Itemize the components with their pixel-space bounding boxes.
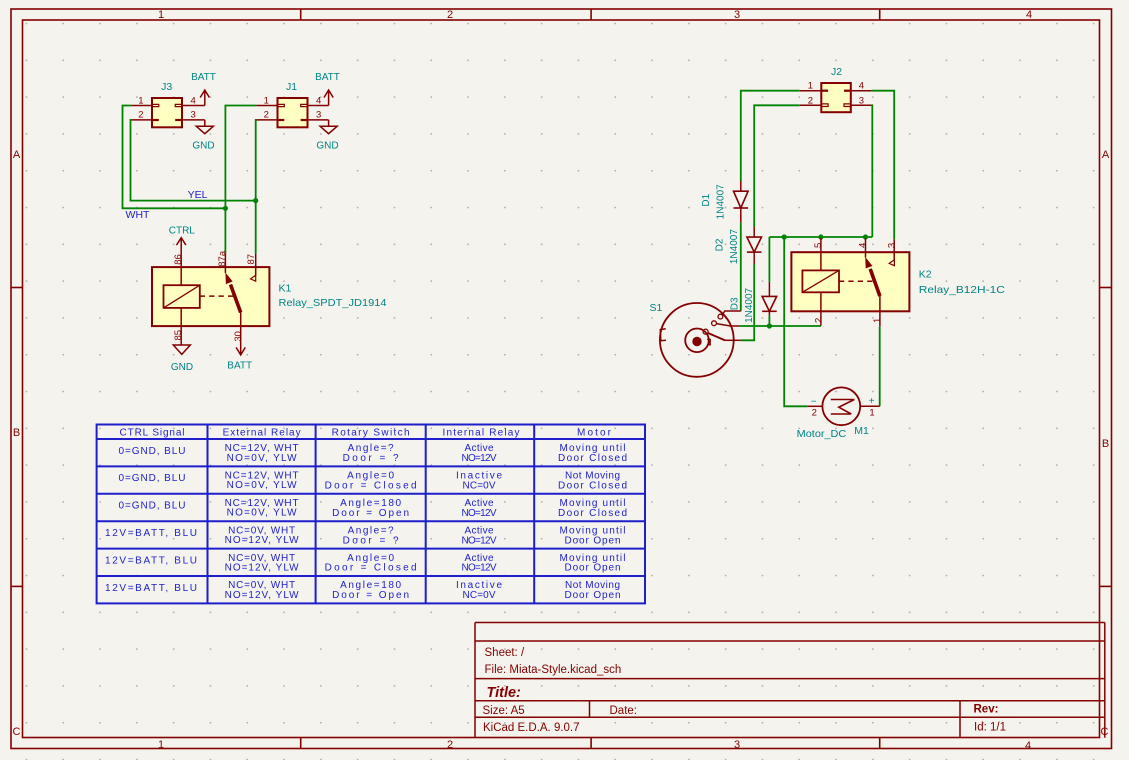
svg-text:D2: D2 [715, 238, 726, 251]
svg-text:Door Open: Door Open [565, 563, 621, 574]
svg-text:12V=BATT, BLU: 12V=BATT, BLU [105, 528, 197, 539]
svg-text:2: 2 [808, 95, 813, 106]
K1 pin numbers [173, 250, 257, 341]
svg-text:D1: D1 [701, 193, 712, 206]
svg-text:KiCad E.D.A. 9.0.7: KiCad E.D.A. 9.0.7 [483, 722, 580, 734]
svg-text:CTRL: CTRL [169, 226, 196, 237]
svg-text:Door Closed: Door Closed [558, 508, 627, 519]
svg-text:Size: A5: Size: A5 [483, 705, 525, 717]
wire D3 cathode to lower rail [768, 315, 770, 326]
svg-text:Id: 1/1: Id: 1/1 [974, 722, 1006, 734]
svg-text:30: 30 [233, 331, 244, 342]
svg-text:BATT: BATT [227, 361, 252, 372]
J2 pin numbers [808, 80, 864, 106]
svg-text:1: 1 [158, 739, 164, 751]
wire D1 cathode to S1 contact [740, 223, 742, 312]
svg-text:3: 3 [734, 739, 740, 751]
svg-text:K2: K2 [919, 269, 932, 281]
wire K2 pin1 down to motor plus [879, 327, 881, 407]
svg-text:NC=0V: NC=0V [463, 590, 496, 601]
svg-text:Date:: Date: [610, 705, 638, 717]
svg-text:NO=12V: NO=12V [462, 508, 497, 519]
svg-text:NO=12V, YLW: NO=12V, YLW [225, 562, 300, 573]
wire J2 pin3 down to coil rail [871, 105, 874, 237]
svg-text:Title:: Title: [487, 685, 522, 701]
svg-text:0=GND, BLU: 0=GND, BLU [119, 473, 186, 484]
svg-text:K1: K1 [279, 283, 292, 295]
svg-text:1N4007: 1N4007 [729, 229, 740, 264]
svg-text:B: B [1102, 438, 1109, 450]
svg-text:12V=BATT, BLU: 12V=BATT, BLU [105, 555, 197, 566]
svg-text:1: 1 [158, 9, 164, 21]
svg-text:2: 2 [138, 110, 143, 121]
svg-text:NO=0V, YLW: NO=0V, YLW [227, 480, 298, 491]
svg-text:1N4007: 1N4007 [715, 184, 726, 219]
wire lower rail S1 to K2 pin2 [739, 325, 821, 327]
wire J3 pin1 to WHT junction [123, 106, 226, 209]
wire J2 pin2 down to D2 anode [754, 105, 800, 227]
svg-text:1N4007: 1N4007 [744, 287, 755, 322]
svg-text:M1: M1 [854, 425, 869, 437]
svg-text:Internal Relay: Internal Relay [443, 427, 520, 438]
svg-text:2: 2 [812, 407, 817, 418]
ground symbol GND at J1 pin3 [316, 120, 338, 152]
svg-text:5: 5 [813, 243, 824, 248]
power symbol CTRL at K1 pin 86 [169, 226, 196, 246]
J1 pin numbers [264, 95, 322, 120]
svg-text:1: 1 [138, 95, 143, 106]
diode D3 1N4007 [762, 282, 777, 316]
svg-text:0=GND, BLU: 0=GND, BLU [119, 501, 186, 512]
svg-text:NC=0V: NC=0V [463, 481, 496, 492]
svg-text:GND: GND [171, 362, 193, 373]
svg-text:J1: J1 [286, 81, 297, 93]
svg-text:3: 3 [859, 95, 864, 106]
svg-text:Door = Open: Door = Open [332, 508, 409, 519]
svg-text:85: 85 [173, 330, 184, 341]
rotary switch S1 [660, 303, 741, 377]
svg-text:NO=12V, YLW: NO=12V, YLW [225, 535, 300, 546]
junction WHT node [223, 206, 228, 211]
svg-text:J2: J2 [831, 66, 842, 78]
svg-text:4: 4 [191, 95, 196, 106]
svg-text:External Relay: External Relay [223, 427, 301, 438]
wire J2 pin4 down to K2 pin3 [872, 91, 895, 240]
wire motor minus branch [784, 237, 807, 406]
svg-text:Door Closed: Door Closed [558, 453, 627, 464]
power symbol BATT at K1 pin 30 (down arrow) [227, 342, 252, 372]
svg-text:1: 1 [872, 318, 883, 323]
wire J1 pin1 down to K1 pin 87a [225, 106, 256, 254]
connector J3 [132, 98, 205, 127]
diode D2 1N4007 [747, 227, 762, 264]
svg-text:3: 3 [316, 110, 321, 121]
power symbol BATT at J1 pin4 [315, 72, 340, 106]
svg-text:S1: S1 [650, 302, 663, 314]
K2 pin numbers [813, 243, 898, 323]
svg-text:A: A [13, 149, 21, 161]
svg-text:Door = Closed: Door = Closed [325, 563, 417, 574]
connector J1 [256, 98, 328, 127]
wire J1 pin2 down to K1 pin 87 [255, 120, 258, 254]
svg-text:Sheet: /: Sheet: / [485, 647, 525, 659]
svg-text:0=GND, BLU: 0=GND, BLU [119, 446, 186, 457]
svg-text:4: 4 [1026, 9, 1032, 21]
relay K2 [791, 238, 909, 327]
power symbol BATT at J3 pin4 [191, 72, 216, 106]
svg-text:3: 3 [191, 110, 196, 121]
truth table [97, 425, 645, 604]
svg-text:87: 87 [246, 254, 257, 265]
svg-text:87a: 87a [217, 250, 228, 267]
svg-text:3: 3 [887, 243, 898, 248]
svg-text:Relay_SPDT_JD1914: Relay_SPDT_JD1914 [279, 297, 387, 309]
wire D3 anode up to coil rail [768, 237, 770, 282]
svg-text:BATT: BATT [315, 72, 340, 83]
svg-text:NO=12V: NO=12V [462, 453, 497, 464]
svg-text:Relay_B12H-1C: Relay_B12H-1C [919, 284, 1005, 296]
wire J2 pin1 down to D1 anode [741, 91, 800, 182]
svg-text:B: B [13, 427, 20, 439]
svg-text:YEL: YEL [188, 189, 208, 201]
svg-text:NO=12V: NO=12V [462, 535, 497, 546]
svg-text:Motor_DC: Motor_DC [797, 428, 847, 440]
svg-text:Rev:: Rev: [974, 704, 999, 716]
svg-text:A: A [1102, 149, 1110, 161]
svg-text:2: 2 [447, 739, 453, 751]
wire D2 cathode down to S1 rotor [741, 264, 755, 340]
relay K1 [152, 238, 269, 345]
svg-text:Door Closed: Door Closed [558, 481, 627, 492]
svg-text:3: 3 [734, 9, 740, 21]
svg-text:−: − [811, 396, 817, 407]
svg-text:4: 4 [859, 80, 864, 91]
svg-text:Door Open: Door Open [565, 535, 621, 546]
svg-text:NO=12V, YLW: NO=12V, YLW [225, 590, 300, 601]
wire J3 pin2 to YEL junction [131, 120, 256, 201]
svg-text:Door = Open: Door = Open [332, 590, 409, 601]
svg-text:GND: GND [316, 141, 338, 152]
motor M1 [807, 387, 880, 425]
svg-text:File: Miata-Style.kicad_sch: File: Miata-Style.kicad_sch [485, 664, 622, 676]
junction YEL node [253, 198, 258, 203]
J3 pin numbers [138, 95, 196, 120]
junction coil rail / motor branch [782, 234, 787, 239]
svg-text:+: + [869, 396, 875, 407]
M1 pin numbers [812, 407, 875, 418]
svg-text:NO=0V, YLW: NO=0V, YLW [227, 508, 298, 519]
svg-text:1: 1 [808, 80, 813, 91]
svg-text:12V=BATT, BLU: 12V=BATT, BLU [105, 583, 197, 594]
svg-text:C: C [13, 726, 21, 738]
M1 polarity marks [811, 396, 875, 407]
svg-text:1: 1 [264, 95, 269, 106]
svg-text:Door Open: Door Open [565, 590, 621, 601]
svg-text:2: 2 [264, 110, 269, 121]
junction coil rail / K2 pin5 [818, 234, 823, 239]
ground symbol GND at J3 pin3 [192, 120, 214, 152]
junction coil rail / K2 pin4 [863, 234, 868, 239]
svg-text:NO=12V: NO=12V [462, 563, 497, 574]
diode D1 1N4007 [734, 181, 749, 223]
connector J2 [800, 83, 872, 112]
svg-text:1: 1 [869, 407, 874, 418]
svg-text:Door = Closed: Door = Closed [325, 481, 417, 492]
svg-text:2: 2 [447, 9, 453, 21]
svg-text:J3: J3 [161, 81, 172, 93]
svg-text:4: 4 [858, 243, 869, 248]
svg-text:Rotary Switch: Rotary Switch [332, 427, 410, 438]
wire coil rail (top) [769, 236, 872, 238]
svg-text:86: 86 [173, 254, 184, 265]
ground symbol GND at K1 pin 85 [171, 345, 193, 373]
svg-text:CTRL Signal: CTRL Signal [120, 427, 185, 438]
svg-text:4: 4 [1025, 740, 1031, 752]
svg-text:GND: GND [192, 141, 214, 152]
junction lower rail / D3 cathode [767, 323, 772, 328]
svg-text:WHT: WHT [126, 209, 150, 221]
svg-text:D3: D3 [730, 297, 741, 310]
svg-text:NO=0V, YLW: NO=0V, YLW [227, 453, 298, 464]
svg-text:BATT: BATT [191, 72, 216, 83]
svg-text:4: 4 [316, 95, 321, 106]
svg-text:2: 2 [813, 318, 824, 323]
